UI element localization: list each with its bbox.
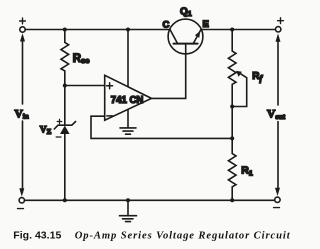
terminal - output (bottom-right) [275,197,280,202]
wire R_f to feedback tap [231,107,233,139]
wire op-amp supply lead [127,30,129,87]
svg-text:741 CN: 741 CN [111,95,144,106]
wire top rail left segment [25,29,170,31]
resistor R_se [61,30,69,86]
wire bottom rail [25,199,275,201]
arrowhead up at +out [276,34,281,42]
arrowhead up at +in [20,33,25,41]
op-amp U1 741 CN [105,75,152,120]
wire top rail right segment [201,29,275,31]
label - at zener [56,136,61,138]
node op-amp supply junction [126,28,130,32]
terminal + input (top-left) [20,27,25,32]
wire feedback to inverting input [91,116,232,138]
node R_f bottom junction [230,105,234,109]
node zener bottom junction [63,198,67,202]
transistor Q1 [168,19,203,54]
ground bottom rail [120,200,137,221]
svg-text:Op-Amp Series Voltage Regulato: Op-Amp Series Voltage Regulator Circuit [75,230,291,241]
node R_f top junction [230,28,234,32]
wire Vin measure arrow line [22,40,24,192]
arrowhead down at -out [275,188,280,196]
wire Vout measure arrow line [277,41,279,188]
resistor R1 [228,138,236,200]
svg-text:E: E [203,19,209,30]
wire to op-amp + input [65,85,105,87]
node ground junction [126,198,130,202]
arrowhead down at -in [19,188,24,196]
node R_se top junction [63,28,67,32]
node R_se bottom junction [63,84,67,88]
wire op-amp output to Q1 base [152,54,186,99]
resistor R_f (variable) [228,30,236,107]
wiper arrow of R_f [232,72,247,106]
svg-text:Fig. 43.15: Fig. 43.15 [13,230,61,241]
node feedback tap [230,136,234,140]
label + at zener [57,119,62,124]
ground op-amp [120,110,136,135]
zener diode VZ [64,86,66,126]
svg-text:C: C [163,20,170,31]
terminal - input (bottom-left) [19,198,24,203]
svg-text:VZ: VZ [40,125,52,136]
node R1 bottom junction [230,198,234,202]
terminal + output (top-right) [276,27,281,32]
